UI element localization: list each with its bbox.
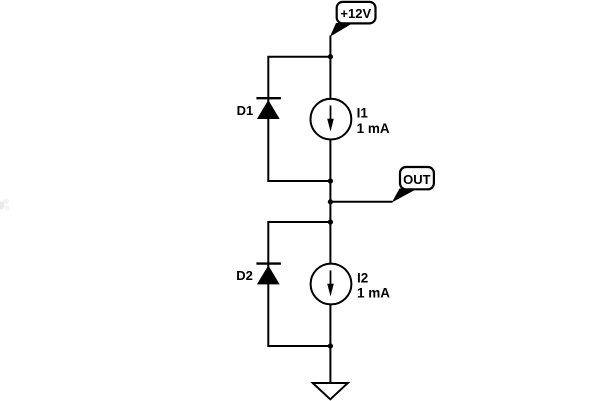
svg-text:OUT: OUT <box>403 172 431 187</box>
current source I2 <box>311 264 352 305</box>
svg-text:D2: D2 <box>236 268 253 283</box>
svg-text:1 mA: 1 mA <box>357 286 390 301</box>
wire main vertical top segment <box>329 36 331 99</box>
diode D1 <box>256 98 281 119</box>
wire OUT horizontal <box>330 201 392 203</box>
svg-text:D1: D1 <box>237 103 254 118</box>
junction dot OUT tap <box>328 199 333 204</box>
wire main vertical bottom segment <box>329 304 331 383</box>
wire upper branch (top horizontal, left vertical, bottom horizontal) <box>268 57 330 181</box>
diode D2 <box>256 264 281 285</box>
svg-text:I1: I1 <box>357 106 369 121</box>
wire lower branch (top horizontal, left vertical, bottom horizontal) <box>268 222 330 346</box>
junction dot top <box>328 54 333 59</box>
current source I1 <box>311 99 352 140</box>
svg-text:I2: I2 <box>357 270 368 285</box>
svg-text:+12V: +12V <box>340 6 371 21</box>
svg-text:1 mA: 1 mA <box>357 121 390 136</box>
junction dot upper rejoin <box>328 178 333 183</box>
node +12V flag <box>330 2 376 37</box>
wire main vertical middle segment <box>329 140 331 264</box>
ground <box>313 383 348 399</box>
junction dot lower split <box>328 219 333 224</box>
junction dot bottom rejoin <box>328 343 333 348</box>
node OUT flag <box>392 167 434 203</box>
